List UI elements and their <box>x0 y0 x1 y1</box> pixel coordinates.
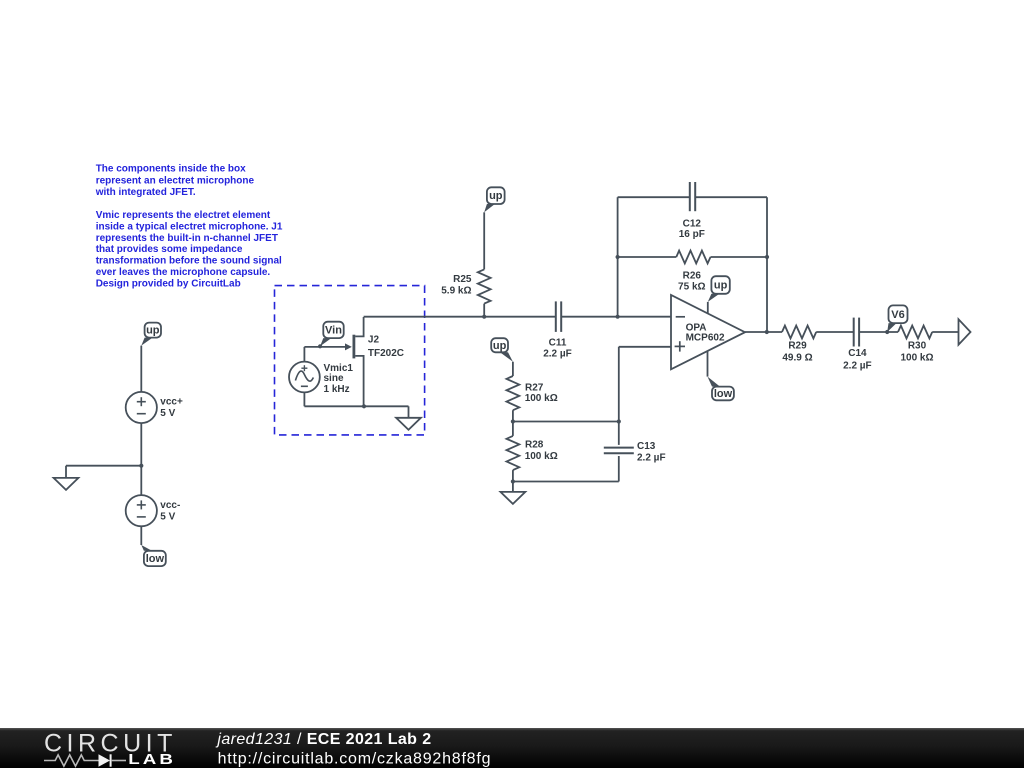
wire C11 to op-amp minus <box>561 316 671 318</box>
node feedback tap <box>616 315 620 319</box>
wire Vmic1 top to gate <box>304 347 345 362</box>
node supply midpoint <box>139 464 143 468</box>
node R26 right <box>765 255 769 259</box>
svg-text:transformation before the soun: transformation before the sound signal <box>96 256 282 267</box>
svg-text:Design provided by CircuitLab: Design provided by CircuitLab <box>96 279 241 290</box>
bottom bar background <box>0 728 1024 768</box>
op-amp U1 OPA MCP602 <box>671 295 745 369</box>
svg-text:C14: C14 <box>848 348 867 359</box>
resistor R30 100k <box>898 326 959 364</box>
svg-text:C11: C11 <box>549 338 567 349</box>
wire to supply ground <box>66 466 141 478</box>
wire plus input <box>619 347 671 422</box>
svg-text:up: up <box>489 190 503 202</box>
capacitor C13 2.2uF <box>604 422 666 482</box>
svg-text:ever leaves the microphone cap: ever leaves the microphone capsule. <box>96 267 271 278</box>
svg-text:Vin: Vin <box>325 324 342 336</box>
wire up-flag to VCC+ top <box>140 346 142 392</box>
resistor R25 5.9k <box>441 212 490 316</box>
svg-text:R29: R29 <box>788 341 807 352</box>
svg-text:up: up <box>493 340 507 352</box>
svg-text:100 kΩ: 100 kΩ <box>525 393 558 404</box>
node R25 bottom <box>482 315 486 319</box>
voltage source VCC+ 5V <box>126 392 183 423</box>
flag low (op-amp V-) <box>708 377 734 401</box>
svg-text:R27: R27 <box>525 382 544 393</box>
svg-text:MCP602: MCP602 <box>686 333 725 344</box>
svg-text:inside a typical electret micr: inside a typical electret microphone. J1 <box>96 221 283 232</box>
svg-text:LAB: LAB <box>128 751 176 768</box>
wire op-amp output <box>745 331 782 333</box>
voltage source VCC- 5V <box>126 495 181 526</box>
svg-text:R25: R25 <box>453 274 472 285</box>
flag Vin <box>320 322 344 347</box>
node divider mid right <box>617 419 621 423</box>
flag up (op-amp V+) <box>708 276 730 302</box>
svg-text:TF202C: TF202C <box>368 348 404 359</box>
svg-text:The components inside the box: The components inside the box <box>96 164 246 175</box>
transistor J2 TF202C (n-JFET) <box>345 317 404 406</box>
logo resistor-diode glyph <box>44 754 126 766</box>
ground (microphone) <box>396 418 421 430</box>
wire C14 to R30 <box>859 331 898 333</box>
node Vin attach <box>318 344 322 348</box>
wire feedback top left <box>618 196 690 198</box>
svg-text:jared1231 / ECE 2021 Lab 2: jared1231 / ECE 2021 Lab 2 <box>215 731 431 748</box>
node source/rail junction <box>362 404 366 408</box>
svg-text:with integrated JFET.: with integrated JFET. <box>95 187 196 198</box>
wire drain to C11 left <box>364 316 556 318</box>
svg-text:C13: C13 <box>637 441 656 452</box>
svg-text:C12: C12 <box>683 218 702 229</box>
flag up (R27) <box>491 338 513 362</box>
wire feedback right vertical <box>766 197 768 332</box>
svg-text:represents the built-in n-chan: represents the built-in n-channel JFET <box>96 233 278 244</box>
svg-text:low: low <box>146 553 165 565</box>
svg-text:2.2 µF: 2.2 µF <box>843 360 872 371</box>
bar title text <box>215 731 431 748</box>
svg-text:V6: V6 <box>891 309 904 321</box>
flag V6 <box>887 305 907 332</box>
resistor R28 100k <box>507 422 558 492</box>
svg-text:16 pF: 16 pF <box>679 229 705 240</box>
wire divider bottom <box>513 481 619 483</box>
svg-text:R26: R26 <box>683 271 702 282</box>
svg-text:5.9 kΩ: 5.9 kΩ <box>441 286 471 297</box>
svg-text:R28: R28 <box>525 440 544 451</box>
wire feedback left vertical <box>617 197 619 317</box>
svg-text:R30: R30 <box>908 341 927 352</box>
node R26 left <box>616 255 620 259</box>
svg-text:low: low <box>714 388 733 400</box>
svg-text:100 kΩ: 100 kΩ <box>525 451 558 462</box>
svg-text:5 V: 5 V <box>160 511 175 522</box>
svg-text:75 kΩ: 75 kΩ <box>678 281 705 292</box>
wire op-amp V- pin <box>707 351 709 377</box>
svg-text:5 V: 5 V <box>160 408 175 419</box>
svg-text:J2: J2 <box>368 335 380 346</box>
svg-text:http://circuitlab.com/czka892h: http://circuitlab.com/czka892h8f8fg <box>218 751 492 768</box>
svg-text:up: up <box>146 325 160 337</box>
node R28 bottom <box>511 479 515 483</box>
annotation text (blue) <box>95 164 283 290</box>
flag low (left supply) <box>141 545 165 566</box>
bar url text <box>218 751 492 768</box>
CircuitLab logo wordmark <box>44 730 177 768</box>
wire VCC- to low flag <box>140 526 142 545</box>
ground (divider) <box>501 492 526 504</box>
flag up (left supply) <box>141 323 161 346</box>
wire divider mid <box>513 421 619 423</box>
svg-text:2.2 µF: 2.2 µF <box>637 453 666 464</box>
microphone box (dashed) <box>275 286 425 435</box>
wire Vmic1 bottom rail <box>304 392 408 417</box>
output terminal arrow <box>959 319 971 344</box>
capacitor C12 16pF <box>679 182 705 240</box>
svg-text:Vmic represents the electret e: Vmic represents the electret element <box>96 210 271 221</box>
wire VCC+ to VCC- with mid junction <box>140 423 142 495</box>
node V6 attach <box>885 330 889 334</box>
svg-text:represent an electret micropho: represent an electret microphone <box>96 175 255 186</box>
wire op-amp V+ pin <box>707 302 709 314</box>
svg-text:vcc-: vcc- <box>160 500 180 511</box>
wire feedback top right <box>695 196 767 198</box>
voltage source Vmic1 sine 1kHz <box>289 362 353 396</box>
resistor R27 100k <box>507 362 558 422</box>
node output junction <box>765 330 769 334</box>
flag up (R25) <box>484 187 504 212</box>
svg-text:49.9 Ω: 49.9 Ω <box>782 352 812 363</box>
capacitor C14 2.2uF <box>843 318 872 372</box>
svg-text:that provides some impedance: that provides some impedance <box>96 244 243 255</box>
svg-text:2.2 µF: 2.2 µF <box>543 349 572 360</box>
capacitor C11 2.2uF <box>543 301 572 359</box>
svg-text:up: up <box>714 280 728 292</box>
resistor R29 49.9 <box>782 326 854 364</box>
svg-text:vcc+: vcc+ <box>160 397 183 408</box>
resistor R26 75k <box>618 251 767 293</box>
node divider mid left <box>511 419 515 423</box>
svg-text:1 kHz: 1 kHz <box>324 384 350 395</box>
ground (supply) <box>54 478 79 490</box>
svg-text:100 kΩ: 100 kΩ <box>900 352 933 363</box>
svg-text:sine: sine <box>324 373 344 384</box>
